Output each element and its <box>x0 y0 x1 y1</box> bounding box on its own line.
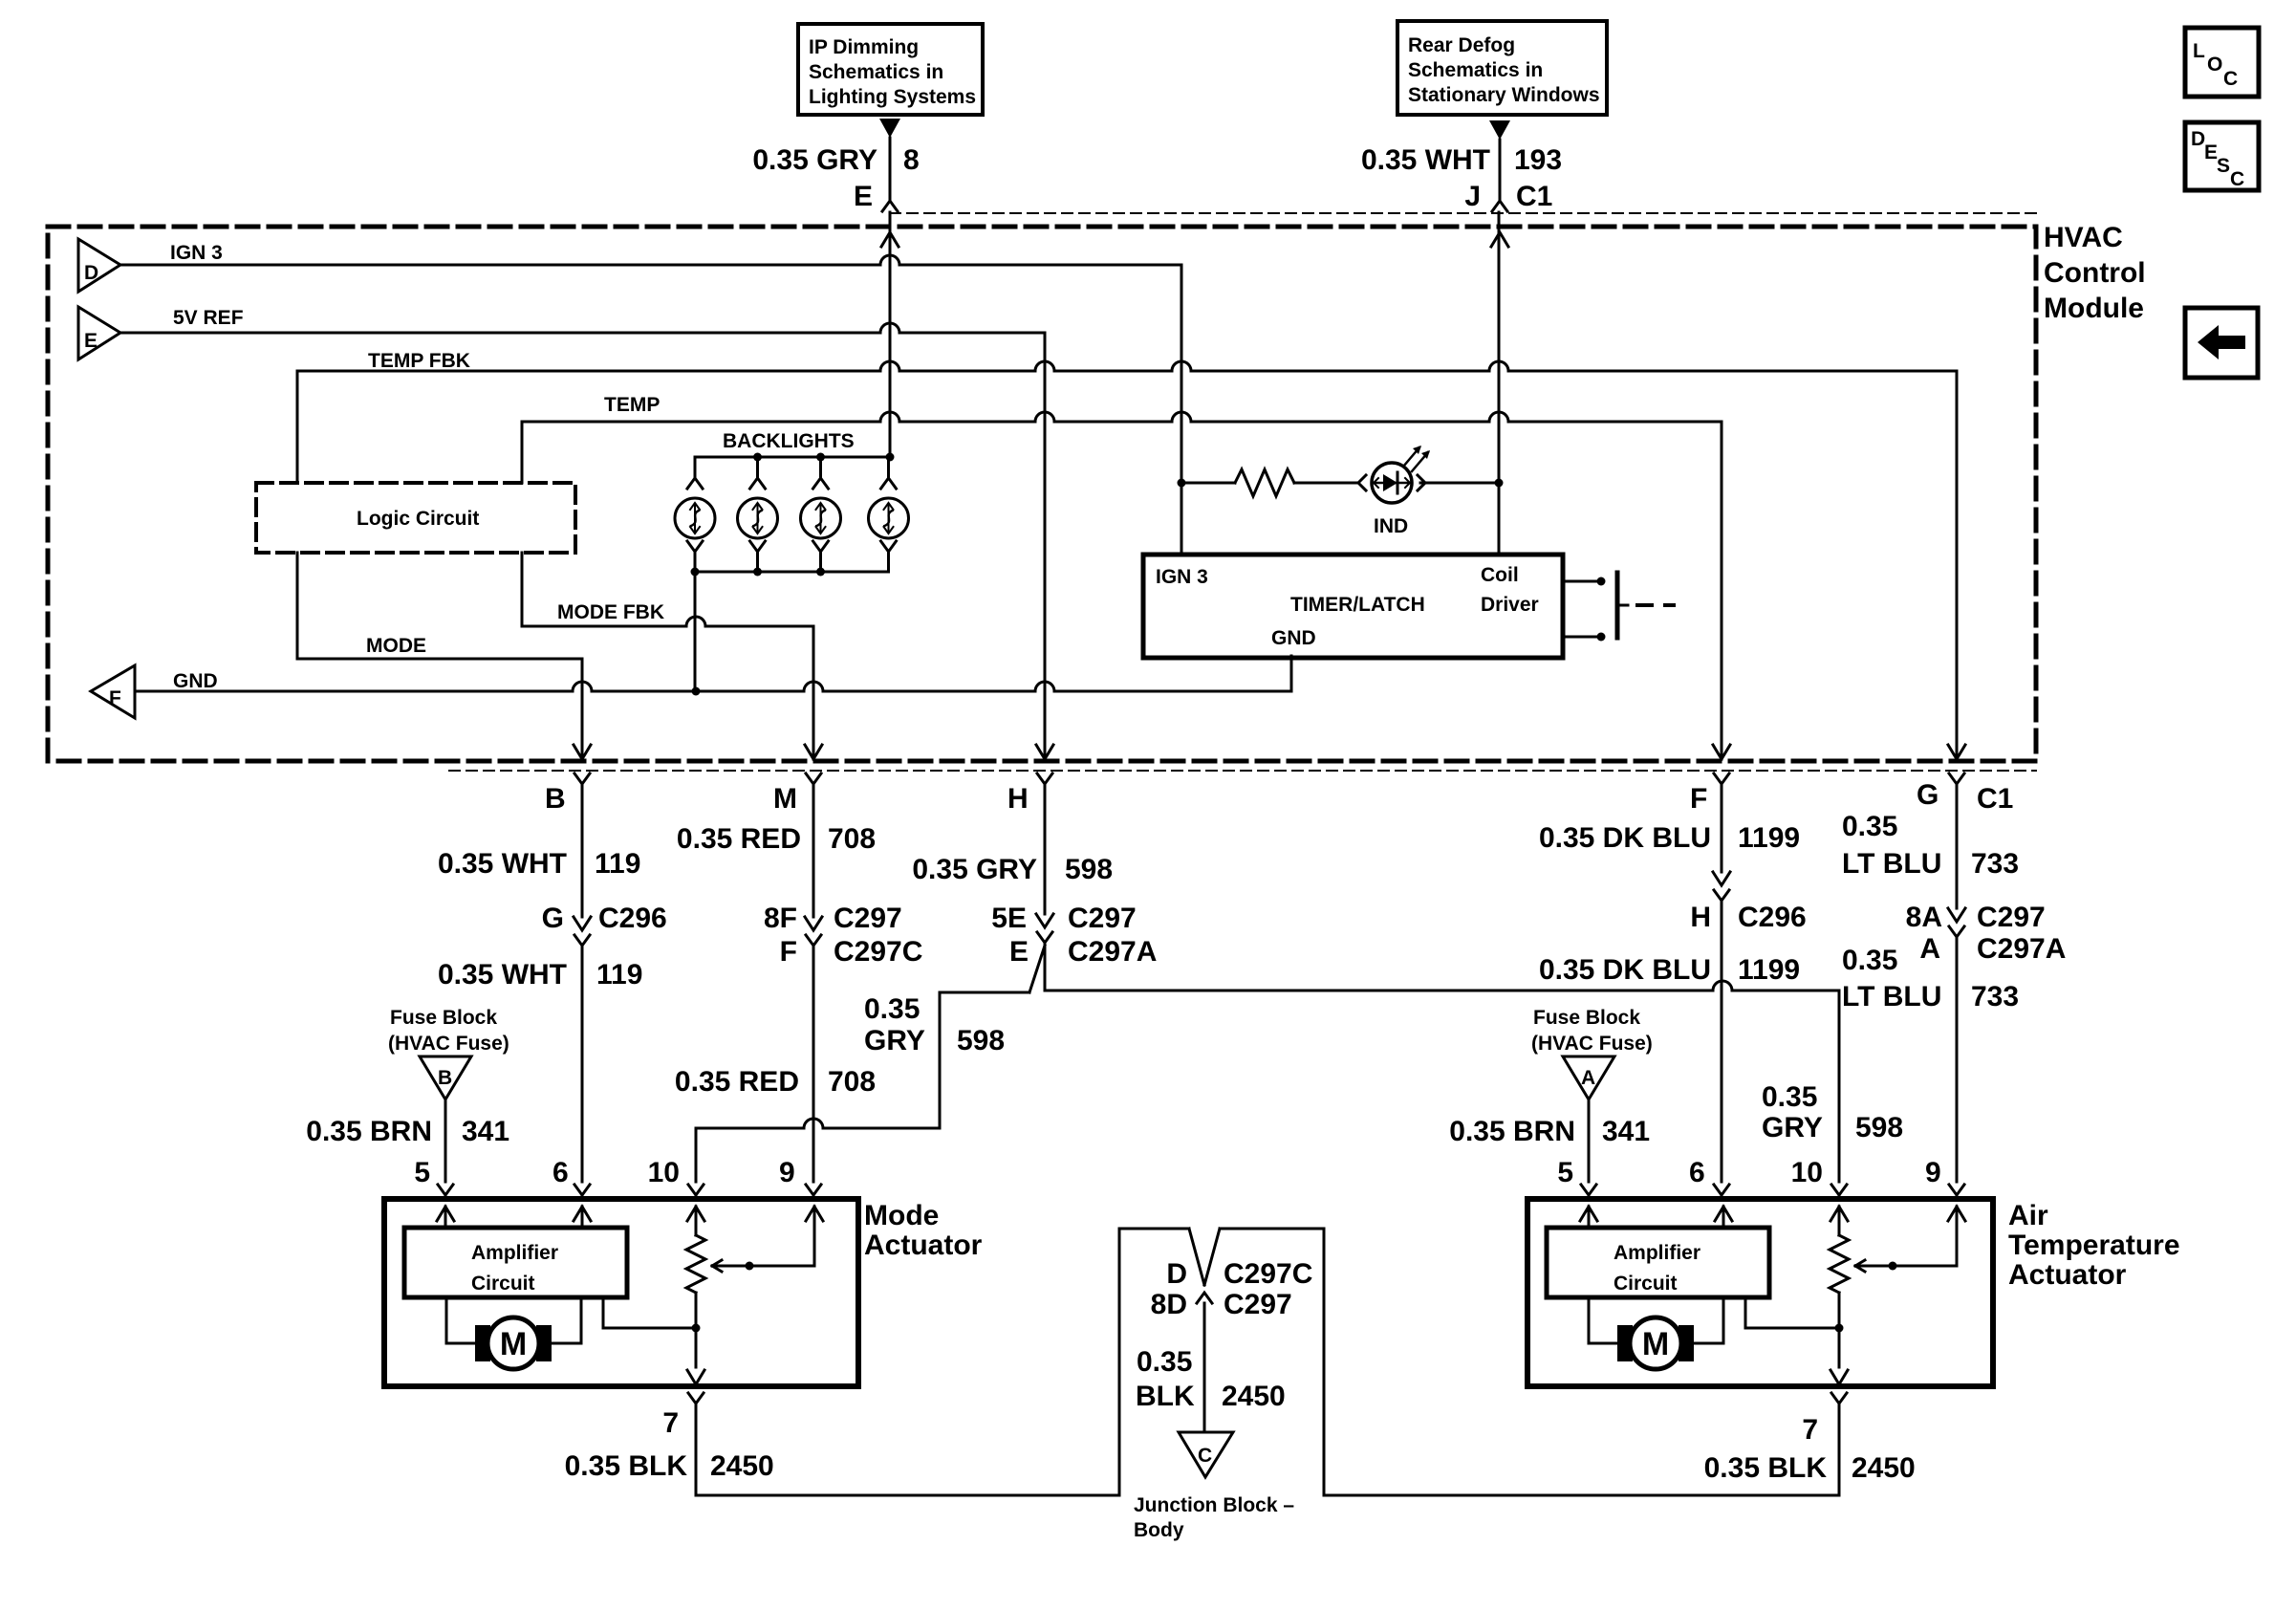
svg-text:C297C: C297C <box>1224 1258 1312 1290</box>
backlight lamp 3 <box>801 457 841 572</box>
svg-text:Control: Control <box>2044 257 2146 289</box>
svg-text:Coil: Coil <box>1481 564 1519 586</box>
potentiometer (Mode) <box>695 1207 698 1235</box>
svg-text:8D: 8D <box>1151 1289 1187 1320</box>
svg-text:GRY: GRY <box>864 1025 925 1056</box>
terminal chevron Air Temp pin 9 <box>1949 1185 1964 1195</box>
wire wiper to pin 9 (Mode) <box>813 1207 816 1266</box>
junction pot low side (Air) <box>1835 1324 1844 1333</box>
junction GND/backlight return <box>692 687 701 696</box>
svg-text:G: G <box>1917 779 1939 811</box>
svg-text:C1: C1 <box>1977 783 2013 815</box>
svg-text:2450: 2450 <box>1222 1381 1286 1412</box>
svg-text:E: E <box>1009 936 1029 968</box>
svg-text:598: 598 <box>1065 854 1113 885</box>
svg-text:(HVAC Fuse): (HVAC Fuse) <box>388 1033 509 1055</box>
svg-text:Stationary Windows: Stationary Windows <box>1408 84 1600 106</box>
svg-text:O: O <box>2207 54 2222 76</box>
svg-text:0.35: 0.35 <box>864 993 920 1025</box>
junction return dot 3 <box>816 568 825 577</box>
wire pin6 to amplifier (Mode) <box>581 1207 584 1228</box>
svg-text:GND: GND <box>173 670 218 692</box>
HVAC Control Module label <box>2044 222 2146 324</box>
svg-text:0.35 DK BLU: 0.35 DK BLU <box>1539 954 1711 986</box>
terminal chevron Mode pin 5 <box>438 1185 453 1195</box>
wire 0.35 BLK 2450 (Air pin 7 to junction) <box>1220 1229 1839 1495</box>
svg-text:0.35 DK BLU: 0.35 DK BLU <box>1539 822 1711 854</box>
svg-text:Mode: Mode <box>864 1200 939 1231</box>
connector C1/C2 dashed line (bottom) <box>449 770 2036 772</box>
wire 0.35 BRN 341 (fuse B to Mode pin 5) <box>444 1099 447 1182</box>
inline connector C296 cavity G <box>574 917 591 930</box>
svg-text:193: 193 <box>1514 144 1562 176</box>
rear defog grid element <box>1617 573 1674 638</box>
potentiometer (Air) <box>1838 1207 1841 1235</box>
wire 0.35 RED 708 (C297C to Mode Actuator pin 9) <box>812 946 815 1182</box>
back-arrow legend box <box>2185 308 2258 378</box>
svg-text:0.35 WHT: 0.35 WHT <box>438 848 567 880</box>
svg-text:C297: C297 <box>1977 902 2046 933</box>
wire amplifier to pot low side (Air) <box>1745 1297 1839 1328</box>
svg-text:7: 7 <box>662 1407 679 1439</box>
svg-text:0.35 BLK: 0.35 BLK <box>1704 1452 1828 1484</box>
svg-text:0.35 RED: 0.35 RED <box>677 823 801 855</box>
Amplifier Circuit box (Air) <box>1547 1228 1769 1297</box>
wire wiper to pin 9 (Air) <box>1956 1207 1959 1266</box>
Mode Actuator box <box>384 1199 858 1386</box>
svg-text:0.35 BLK: 0.35 BLK <box>565 1450 688 1482</box>
svg-text:C297C: C297C <box>834 936 922 968</box>
motor M (Air) <box>1617 1317 1694 1369</box>
junction LED/J wire <box>1495 479 1504 488</box>
svg-text:Junction Block –: Junction Block – <box>1134 1494 1294 1516</box>
connector C297C cavity D join <box>1189 1229 1220 1285</box>
junction return dot 2 <box>753 568 762 577</box>
svg-text:M: M <box>773 783 797 815</box>
svg-text:GRY: GRY <box>1762 1112 1823 1143</box>
wire pin6 to amplifier (Air) <box>1722 1207 1725 1228</box>
wire 0.35 WHT 119 (C296 to Mode Actuator pin 6) <box>581 946 584 1182</box>
wire 0.35 GRY 598 (pin H to C297A) <box>1044 784 1047 914</box>
svg-text:6: 6 <box>1689 1157 1705 1188</box>
svg-text:F: F <box>1690 783 1707 815</box>
terminal chevron Mode pin 10 <box>688 1185 704 1195</box>
svg-text:S: S <box>2217 155 2230 177</box>
svg-text:L: L <box>2193 40 2205 62</box>
svg-text:0.35 WHT: 0.35 WHT <box>1361 144 1490 176</box>
coil driver output stub 1 <box>1563 580 1597 583</box>
connector chevron below pin B <box>574 773 590 784</box>
wire IGN 3 (pin D to timer/latch) <box>120 255 1181 265</box>
wire pin5 to amplifier (Air) <box>1588 1207 1591 1228</box>
arrow into module at pin J <box>1491 232 1508 247</box>
wire 0.35 BLK 2450 (to ground C) <box>1203 1303 1206 1432</box>
svg-text:8F: 8F <box>764 903 797 934</box>
resistor (IND dropping resistor) <box>1181 482 1235 485</box>
svg-text:Circuit: Circuit <box>1614 1273 1678 1295</box>
wire 0.35 WHT pin J drop (to timer/latch) <box>1498 212 1501 555</box>
svg-text:10: 10 <box>648 1157 680 1188</box>
svg-text:BLK: BLK <box>1136 1381 1195 1412</box>
svg-text:C: C <box>2223 68 2238 90</box>
svg-text:7: 7 <box>1802 1414 1818 1446</box>
svg-text:733: 733 <box>1971 981 2019 1012</box>
module pin E triangle <box>78 307 120 359</box>
wiper arrow (Mode) <box>712 1260 722 1272</box>
svg-text:0.35 BRN: 0.35 BRN <box>306 1116 432 1147</box>
svg-text:6: 6 <box>552 1157 569 1188</box>
wiper junction dot (Air) <box>1889 1262 1897 1271</box>
svg-text:E: E <box>84 330 97 352</box>
wire motor right to amplifier (Mode) <box>552 1297 581 1343</box>
arrow into Air Temp Actuator pin 10 <box>1830 1207 1848 1221</box>
connector chevron below pin G <box>1949 773 1964 784</box>
backlight lamp 4 <box>869 457 909 572</box>
wire 0.35 GRY 8 from IP Dimming box <box>889 138 892 201</box>
inline connector C297/C297A cavity 5E-E <box>1036 914 1053 927</box>
svg-text:0.35 GRY: 0.35 GRY <box>912 854 1037 885</box>
wire 0.35 LT BLU 733 (pin G to C297) <box>1956 784 1959 908</box>
svg-text:0.35: 0.35 <box>1842 811 1897 842</box>
svg-text:M: M <box>500 1326 527 1362</box>
backlight lamp 1 <box>675 457 715 572</box>
svg-text:8: 8 <box>903 144 920 176</box>
arrow into Air Temp Actuator pin 9 <box>1948 1207 1965 1221</box>
svg-text:C297: C297 <box>1224 1289 1292 1320</box>
svg-text:B: B <box>438 1067 452 1089</box>
svg-text:1199: 1199 <box>1738 822 1800 854</box>
terminal chevron Air Temp pin 10 <box>1831 1185 1847 1195</box>
svg-text:5V REF: 5V REF <box>173 307 244 329</box>
arrow into Air Temp Actuator pin 6 <box>1715 1207 1732 1221</box>
arrow into Mode Actuator pin 5 <box>437 1207 454 1221</box>
svg-text:598: 598 <box>1855 1112 1903 1143</box>
arrow into Air Temp Actuator pin 5 <box>1580 1207 1597 1221</box>
svg-text:C297: C297 <box>1068 903 1137 934</box>
wire MODE FBK (logic circuit to pin M drop) <box>521 553 524 626</box>
svg-text:0.35 GRY: 0.35 GRY <box>752 144 877 176</box>
svg-text:H: H <box>1690 902 1711 933</box>
svg-text:8A: 8A <box>1906 902 1942 933</box>
Logic Circuit dashed box <box>256 483 575 553</box>
svg-text:Driver: Driver <box>1481 594 1539 616</box>
svg-text:C297A: C297A <box>1068 936 1157 968</box>
svg-text:C: C <box>1198 1445 1212 1467</box>
inline connector C296 cavity H <box>1713 872 1730 885</box>
svg-text:0.35 RED: 0.35 RED <box>675 1066 799 1098</box>
svg-text:B: B <box>545 783 566 815</box>
svg-text:C: C <box>2230 168 2244 190</box>
module pin F triangle <box>91 665 135 718</box>
arrow into Mode Actuator pin 6 <box>574 1207 591 1221</box>
svg-text:MODE FBK: MODE FBK <box>557 601 664 623</box>
svg-text:C297: C297 <box>834 903 902 934</box>
svg-text:C1: C1 <box>1516 181 1552 212</box>
terminal chevron Air Temp pin 6 <box>1714 1185 1729 1195</box>
svg-text:C296: C296 <box>1738 902 1807 933</box>
arrow out of module at pin B <box>574 745 591 759</box>
svg-text:9: 9 <box>779 1157 795 1188</box>
arrow into module at pin E <box>881 232 899 247</box>
svg-text:C296: C296 <box>598 903 667 934</box>
ground connector C triangle <box>1179 1432 1233 1477</box>
wire GRY 598 branch to Air Temp pin 10 <box>1044 943 1047 991</box>
terminal chevron Mode pin 7 <box>688 1393 704 1404</box>
DESC legend box <box>2185 122 2259 190</box>
svg-text:2450: 2450 <box>710 1450 774 1482</box>
svg-text:2450: 2450 <box>1852 1452 1916 1484</box>
wire 0.35 LT BLU 733 (C297A to Air Temp pin 9) <box>1956 937 1959 1182</box>
svg-text:GND: GND <box>1271 627 1316 649</box>
svg-text:1199: 1199 <box>1738 954 1800 986</box>
svg-text:D: D <box>84 262 98 284</box>
svg-text:Schematics in: Schematics in <box>809 61 943 83</box>
svg-text:5E: 5E <box>991 903 1027 934</box>
wiper arrow (Air) <box>1855 1260 1865 1272</box>
svg-text:5: 5 <box>414 1157 430 1188</box>
wire 0.35 GRY pin E drop (to backlight bus) <box>889 212 892 457</box>
junction bus dot 2 <box>816 453 825 462</box>
wire backlight return bus <box>695 563 889 572</box>
connector C1 dashed line (top) <box>890 212 2036 214</box>
arrow into Mode Actuator pin 9 <box>806 1207 823 1221</box>
wire 0.35 BLK 2450 (Mode pin 7 to junction) <box>696 1229 1189 1495</box>
wire pin5 to amplifier (Mode) <box>444 1207 447 1228</box>
arrow out of module at pin F <box>1713 745 1730 759</box>
svg-text:Logic Circuit: Logic Circuit <box>357 508 479 530</box>
LOC legend box <box>2185 28 2259 97</box>
wire 5V REF (pin E to pin H drop) <box>120 323 1045 333</box>
svg-text:0.35: 0.35 <box>1137 1346 1192 1378</box>
svg-text:0.35 WHT: 0.35 WHT <box>438 959 567 991</box>
svg-text:5: 5 <box>1557 1157 1573 1188</box>
svg-text:J: J <box>1464 181 1481 212</box>
terminal chevron Mode pin 9 <box>806 1185 821 1195</box>
junction bus dot 1 <box>753 453 762 462</box>
inline connector C297/C297A cavity 8A-A <box>1948 908 1965 922</box>
svg-text:F: F <box>109 687 121 709</box>
svg-text:TEMP: TEMP <box>604 394 660 416</box>
wire LED to coil driver drop <box>1420 482 1499 485</box>
svg-text:IND: IND <box>1374 515 1408 537</box>
terminal chevron Air Temp pin 5 <box>1581 1185 1596 1195</box>
svg-text:Lighting Systems: Lighting Systems <box>809 86 976 108</box>
svg-text:TEMP FBK: TEMP FBK <box>368 350 470 372</box>
junction return dot 1 <box>691 568 700 577</box>
arrow out of module at pin H <box>1036 745 1053 759</box>
svg-text:598: 598 <box>957 1025 1005 1056</box>
motor M (Mode) <box>475 1317 552 1369</box>
svg-text:119: 119 <box>595 848 640 880</box>
wire backlight return to GND <box>694 572 697 691</box>
svg-text:D: D <box>2191 128 2205 150</box>
wire 0.35 RED 708 (pin M to C297) <box>812 784 815 917</box>
connector chevron below pin F <box>1714 773 1729 784</box>
svg-text:9: 9 <box>1925 1157 1941 1188</box>
Amplifier Circuit box (Mode) <box>404 1228 627 1297</box>
svg-text:Module: Module <box>2044 293 2144 324</box>
svg-text:LT BLU: LT BLU <box>1842 981 1941 1012</box>
wire GRY 598 diagonal branch <box>1029 946 1045 992</box>
svg-text:A: A <box>1581 1067 1595 1089</box>
fuse block connector A triangle <box>1563 1056 1614 1099</box>
svg-text:F: F <box>780 936 797 968</box>
svg-text:341: 341 <box>1602 1116 1650 1147</box>
wire MODE (logic circuit to pin B drop) <box>296 553 299 659</box>
wire 0.35 WHT 193 from Rear Defog box <box>1499 140 1502 201</box>
svg-text:Actuator: Actuator <box>864 1230 983 1261</box>
svg-text:Air: Air <box>2008 1200 2048 1231</box>
LED indicator IND <box>1358 446 1430 503</box>
reference box: Rear Defog Schematics in Stationary Windows <box>1397 21 1607 115</box>
module pin D triangle <box>78 239 120 292</box>
wire backlight feed bus <box>695 456 890 459</box>
wiper junction dot (Mode) <box>746 1262 754 1271</box>
svg-text:708: 708 <box>828 823 876 855</box>
svg-text:TIMER/LATCH: TIMER/LATCH <box>1290 594 1425 616</box>
inline connector C297/C297C cavity 8F-F <box>805 917 822 930</box>
svg-text:Rear Defog: Rear Defog <box>1408 34 1515 56</box>
svg-text:C297A: C297A <box>1977 933 2066 965</box>
svg-text:Actuator: Actuator <box>2008 1259 2127 1291</box>
svg-text:HVAC: HVAC <box>2044 222 2123 253</box>
svg-text:Amplifier: Amplifier <box>471 1242 558 1264</box>
wire amplifier to motor left (Air) <box>1589 1297 1617 1343</box>
arrow to Mode pin 7 <box>687 1370 704 1384</box>
svg-text:IGN 3: IGN 3 <box>1156 566 1208 588</box>
svg-text:A: A <box>1919 933 1940 965</box>
backlight lamp 2 <box>738 457 778 572</box>
wire TEMP (logic circuit to pin F drop) <box>521 422 524 483</box>
svg-text:IGN 3: IGN 3 <box>170 242 223 264</box>
svg-text:Fuse Block: Fuse Block <box>1533 1007 1640 1029</box>
junction bus dot 3 <box>886 453 895 462</box>
fuse block connector B triangle <box>420 1056 471 1099</box>
svg-text:Schematics in: Schematics in <box>1408 59 1543 81</box>
wire amplifier to pot low side (Mode) <box>603 1297 696 1328</box>
TIMER/LATCH box <box>1143 555 1563 658</box>
off-page arrow (to IP Dimming) <box>879 119 900 138</box>
wire 0.35 DK BLU 1199 (pin F to C296) <box>1721 784 1723 872</box>
wire motor right to amplifier (Air) <box>1694 1297 1723 1343</box>
svg-text:G: G <box>542 903 564 934</box>
svg-text:119: 119 <box>596 959 642 991</box>
wire GND (pin F to timer/latch gnd) <box>135 682 1291 691</box>
svg-text:733: 733 <box>1971 848 2019 880</box>
wire 0.35 BRN 341 (fuse A to Air Temp pin 5) <box>1588 1099 1591 1182</box>
coil driver output stub 2 <box>1563 636 1597 639</box>
svg-text:(HVAC Fuse): (HVAC Fuse) <box>1531 1033 1653 1055</box>
svg-text:Circuit: Circuit <box>471 1273 535 1295</box>
svg-text:LT BLU: LT BLU <box>1842 848 1941 880</box>
junction IGN3/resistor <box>1178 479 1186 488</box>
connector chevron below pin M <box>806 773 821 784</box>
reference box: IP Dimming Schematics in Lighting Systems <box>798 24 983 115</box>
connector chevron below pin H <box>1037 773 1052 784</box>
svg-text:Temperature: Temperature <box>2008 1230 2180 1261</box>
svg-text:Fuse Block: Fuse Block <box>390 1007 497 1029</box>
svg-text:0.35: 0.35 <box>1762 1081 1817 1113</box>
svg-text:Body: Body <box>1134 1519 1184 1541</box>
junction pot low side (Mode) <box>692 1324 701 1333</box>
wire GRY 598 branch to Mode pin 10 <box>940 991 1029 994</box>
svg-text:341: 341 <box>462 1116 509 1147</box>
arrow to Air Temp pin 7 <box>1830 1370 1848 1384</box>
wire amplifier to motor left (Mode) <box>446 1297 475 1343</box>
svg-text:10: 10 <box>1791 1157 1823 1188</box>
wire 0.35 WHT 119 (pin B to C296) <box>581 784 584 917</box>
svg-text:E: E <box>2204 142 2218 163</box>
arrow out of module at pin M <box>805 745 822 759</box>
svg-text:BACKLIGHTS: BACKLIGHTS <box>723 430 855 452</box>
svg-text:0.35 BRN: 0.35 BRN <box>1449 1116 1575 1147</box>
svg-text:708: 708 <box>828 1066 876 1098</box>
arrow out of module at pin G <box>1948 745 1965 759</box>
wire TEMP FBK (logic circuit to pin G drop) <box>296 371 299 483</box>
off-page arrow (to Rear Defog) <box>1489 120 1510 140</box>
terminal chevron Mode pin 6 <box>574 1185 590 1195</box>
connector chevron 8D C297 <box>1197 1293 1212 1303</box>
HVAC Control Module dashed box <box>48 227 2036 761</box>
svg-text:M: M <box>1642 1326 1669 1362</box>
wire 0.35 DK BLU 1199 (C296 to Air Temp pin 6) <box>1721 901 1723 1182</box>
svg-text:Amplifier: Amplifier <box>1614 1242 1700 1264</box>
Air Temperature Actuator box <box>1527 1199 1993 1386</box>
arrow into Mode Actuator pin 10 <box>687 1207 704 1221</box>
svg-text:E: E <box>854 181 873 212</box>
svg-text:D: D <box>1166 1258 1187 1290</box>
svg-text:0.35: 0.35 <box>1842 945 1897 976</box>
svg-text:H: H <box>1007 783 1029 815</box>
terminal chevron Air Temp pin 7 <box>1831 1393 1847 1404</box>
svg-text:IP Dimming: IP Dimming <box>809 36 919 58</box>
svg-text:MODE: MODE <box>366 635 426 657</box>
